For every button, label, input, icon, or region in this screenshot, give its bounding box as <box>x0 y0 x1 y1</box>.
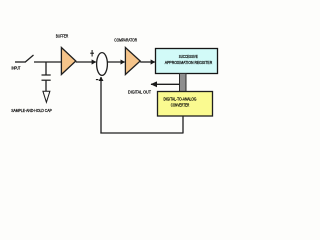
ground <box>43 91 50 102</box>
wire DAC down <box>182 116 184 133</box>
wire summer to comparator <box>107 61 124 63</box>
wire cap lead upper <box>45 62 47 75</box>
bus SAR to DAC <box>180 74 187 93</box>
label minus <box>96 79 99 81</box>
svg-text:COMPARATOR: COMPARATOR <box>114 38 137 44</box>
wire feedback bottom <box>100 132 183 134</box>
svg-text:CONVERTER: CONVERTER <box>171 103 190 108</box>
svg-text:SUCCESSIVE: SUCCESSIVE <box>179 54 198 59</box>
switch S1 (sample switch, open) <box>25 55 34 62</box>
wire comparator to SAR <box>140 61 155 63</box>
svg-text:BUFFER: BUFFER <box>56 34 69 40</box>
svg-text:SAMPLE-AND-HOLD CAP: SAMPLE-AND-HOLD CAP <box>11 108 52 113</box>
svg-text:APPROXIMATION REGISTER: APPROXIMATION REGISTER <box>165 60 213 65</box>
comparator U1 <box>125 48 140 75</box>
svg-text:DIGITAL-TO-ANALOG: DIGITAL-TO-ANALOG <box>164 97 197 102</box>
node summing junction <box>97 53 108 76</box>
wire buffer to summer <box>76 61 96 63</box>
wire cap lead lower <box>45 81 47 92</box>
label plus <box>90 50 94 57</box>
wire digital out <box>151 83 180 85</box>
wire feedback up to summer <box>100 77 102 134</box>
wire input stub <box>15 61 26 63</box>
op-amp buffer A1 <box>61 48 75 75</box>
capacitor C1 sample-and-hold <box>42 75 51 80</box>
svg-text:DIGITAL OUT: DIGITAL OUT <box>128 89 151 94</box>
block U2 successive approximation register <box>156 49 218 74</box>
svg-text:INPUT: INPUT <box>12 66 21 71</box>
wire switch to buffer <box>34 61 62 63</box>
block U3 digital-to-analog converter <box>158 92 213 117</box>
